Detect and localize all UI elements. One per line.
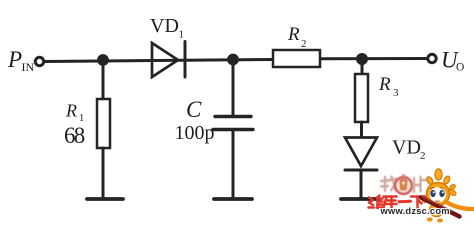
label R2 <box>287 24 307 50</box>
watermark mascot body <box>422 188 458 222</box>
diode VD2 <box>345 138 377 171</box>
svg-text:P: P <box>7 47 22 72</box>
svg-text:2: 2 <box>301 38 307 50</box>
watermark mascot eyes <box>430 188 445 202</box>
svg-text:IN: IN <box>22 60 35 74</box>
label R1 <box>65 101 84 125</box>
ground (R1 branch) <box>87 197 123 201</box>
svg-text:68: 68 <box>64 123 85 148</box>
watermark mascot head <box>427 183 450 206</box>
svg-text:3: 3 <box>393 87 399 99</box>
label value 68 <box>64 123 85 148</box>
node B (junction of C) <box>227 54 239 66</box>
label R3 <box>378 74 399 99</box>
watermark mascot brush blade <box>421 197 460 217</box>
svg-text:1: 1 <box>179 29 185 41</box>
node C (junction of R3) <box>356 53 368 65</box>
wire node C down to R3 <box>361 59 364 74</box>
watermark red character ku <box>384 197 397 209</box>
svg-text:www.dzsc.com: www.dzsc.com <box>380 206 450 216</box>
svg-text:100p: 100p <box>175 122 215 144</box>
wire R3 to VD2 <box>360 122 363 137</box>
watermark red character xia <box>411 197 425 209</box>
wire capacitor to ground <box>232 130 235 198</box>
svg-text:VD: VD <box>150 15 179 37</box>
output terminal U_O <box>428 54 436 62</box>
label P_IN <box>7 47 34 74</box>
wire node A down to R1 <box>102 60 105 99</box>
label C <box>186 97 202 122</box>
watermark mascot crown <box>426 169 457 190</box>
svg-text:R: R <box>287 24 300 45</box>
node A (junction of R1) <box>97 54 109 66</box>
input terminal P_IN <box>35 57 43 65</box>
label VD1 <box>150 15 184 41</box>
watermark stamp character pian (chip) <box>414 177 426 192</box>
capacitor C <box>213 117 253 130</box>
svg-text:R: R <box>65 101 77 121</box>
label 100p <box>175 122 215 144</box>
svg-text:2: 2 <box>420 150 426 162</box>
resistor R3 <box>355 74 368 122</box>
svg-text:VD: VD <box>392 137 421 159</box>
watermark red character yi <box>399 200 411 204</box>
svg-text:O: O <box>456 62 464 74</box>
wire node B down to capacitor <box>232 60 235 116</box>
wire VD2 to ground <box>360 170 363 198</box>
wire R1 to ground <box>102 148 105 198</box>
diode VD1 <box>152 42 185 78</box>
watermark url www.dzsc.com <box>380 206 450 216</box>
wire main horizontal rail <box>44 59 428 62</box>
watermark stamp character zhao (find) <box>381 177 396 192</box>
svg-text:C: C <box>186 97 202 122</box>
watermark orange swash <box>446 202 474 209</box>
watermark red character wei <box>369 196 384 209</box>
ground (C branch) <box>214 197 252 201</box>
resistor R2 <box>273 50 320 67</box>
watermark stamp ring logo <box>395 174 412 194</box>
label VD2 <box>392 137 426 163</box>
resistor R1 <box>97 99 110 148</box>
svg-text:R: R <box>378 74 391 95</box>
ground (VD2 branch) <box>341 197 379 201</box>
label U_O <box>441 48 464 74</box>
